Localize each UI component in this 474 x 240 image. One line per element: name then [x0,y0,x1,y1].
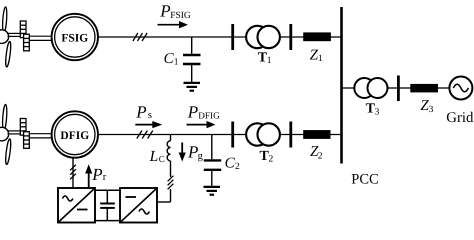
label P_s [135,102,152,121]
bus tick (right of T3) [397,76,400,102]
svg-text:Grid: Grid [446,110,474,126]
wire: T3 to tick [388,87,399,89]
transformer T2 [246,123,280,145]
svg-text:P: P [135,102,146,121]
svg-text:r: r [103,172,107,183]
wind turbine WT1 high-speed shaft [29,36,51,40]
converter U1 (machine-side, AC/DC) [58,188,95,223]
arrow P_r [85,164,92,187]
cable slash marks (rotor branch) [70,165,76,180]
transformer T3 [354,78,387,98]
capacitor Cdc (DC link) [100,190,115,220]
generator FSIG [52,14,98,60]
ground (below C1) [184,83,201,91]
bus tick (row 2, right of T2) [289,122,292,148]
svg-text:FSIG: FSIG [170,11,191,21]
svg-text:1: 1 [267,56,272,66]
PCC bus [340,7,343,164]
svg-text:2: 2 [318,152,323,162]
label Z3 [420,98,433,115]
label P_FSIG [159,2,191,21]
impedance Z1 [303,32,331,41]
svg-text:P: P [91,165,102,184]
wind turbine WT2 blades [2,104,12,164]
transformer T1 [246,26,280,48]
grid source (AC) [449,77,472,100]
label T1 [258,50,272,66]
svg-text:L: L [149,148,159,165]
gearbox GB1 [20,21,29,51]
label Lc [149,148,165,165]
generator DFIG [52,111,98,157]
cable slash marks (grid-side converter branch) [168,176,174,190]
DC link wires [95,190,120,220]
capacitor C2 [204,135,221,187]
arrow P_DFIG [187,121,216,128]
ground (below C2) [204,187,221,195]
label T2 [260,149,274,165]
cable slash marks (row 2) [137,131,153,139]
capacitor C1 [183,37,201,82]
svg-text:3: 3 [429,105,434,115]
cable slash marks (row 1) [133,33,147,41]
impedance Z3 [410,84,438,93]
gearbox GB2 [20,119,29,149]
label P_g [187,142,204,162]
svg-text:DFIG: DFIG [60,130,89,142]
svg-text:C: C [159,154,165,164]
wind turbine WT1 low-speed shaft [8,33,22,36]
bus tick (row 1, left of T1) [231,24,234,50]
svg-text:FSIG: FSIG [61,32,88,44]
svg-text:C: C [225,155,236,171]
inductor Lc (coil on grid-side converter branch) [167,135,170,178]
wire: Z3 to grid source [438,87,450,89]
label Z2 [310,144,323,161]
label Z1 [310,48,323,65]
bus tick (row 2, left of T2) [231,122,234,148]
svg-text:2: 2 [269,155,274,165]
wire: grid-side converter to Lc [157,189,171,202]
wind turbine WT1 hub [0,30,9,44]
label P_r [91,165,106,184]
arrow P_FSIG [158,21,189,28]
svg-text:3: 3 [375,108,380,118]
impedance Z2 [303,130,330,139]
svg-text:DFIG: DFIG [198,111,220,121]
svg-text:1: 1 [174,58,179,68]
bus tick (row 1, right of T1) [289,24,292,50]
wind turbine WT2 high-speed shaft [29,134,51,138]
svg-text:PCC: PCC [351,172,378,188]
wind turbine WT2 low-speed shaft [8,131,22,134]
svg-text:2: 2 [235,162,240,172]
arrow P_s [135,121,162,128]
wire: FSIG to PCC bus (row 1) [98,36,342,38]
label T3 [366,102,380,118]
label C2 [225,155,240,172]
wire: tick to Z3 [398,87,410,89]
label C1 [164,51,179,68]
wire: PCC bus to T3 [342,87,356,89]
wind turbine WT1 blades [2,7,12,67]
arrow P_g [179,143,186,162]
wind turbine WT2 hub [0,127,9,141]
converter U2 (grid-side, DC/AC) [120,188,157,223]
svg-text:P: P [159,2,170,21]
svg-text:g: g [198,151,204,162]
wire: DFIG to PCC bus (row 2) [98,134,342,136]
svg-text:s: s [148,110,152,121]
svg-text:P: P [187,102,198,121]
svg-text:1: 1 [318,54,323,64]
label P_DFIG [187,102,220,121]
wire: DFIG rotor to machine-side converter [72,158,74,188]
